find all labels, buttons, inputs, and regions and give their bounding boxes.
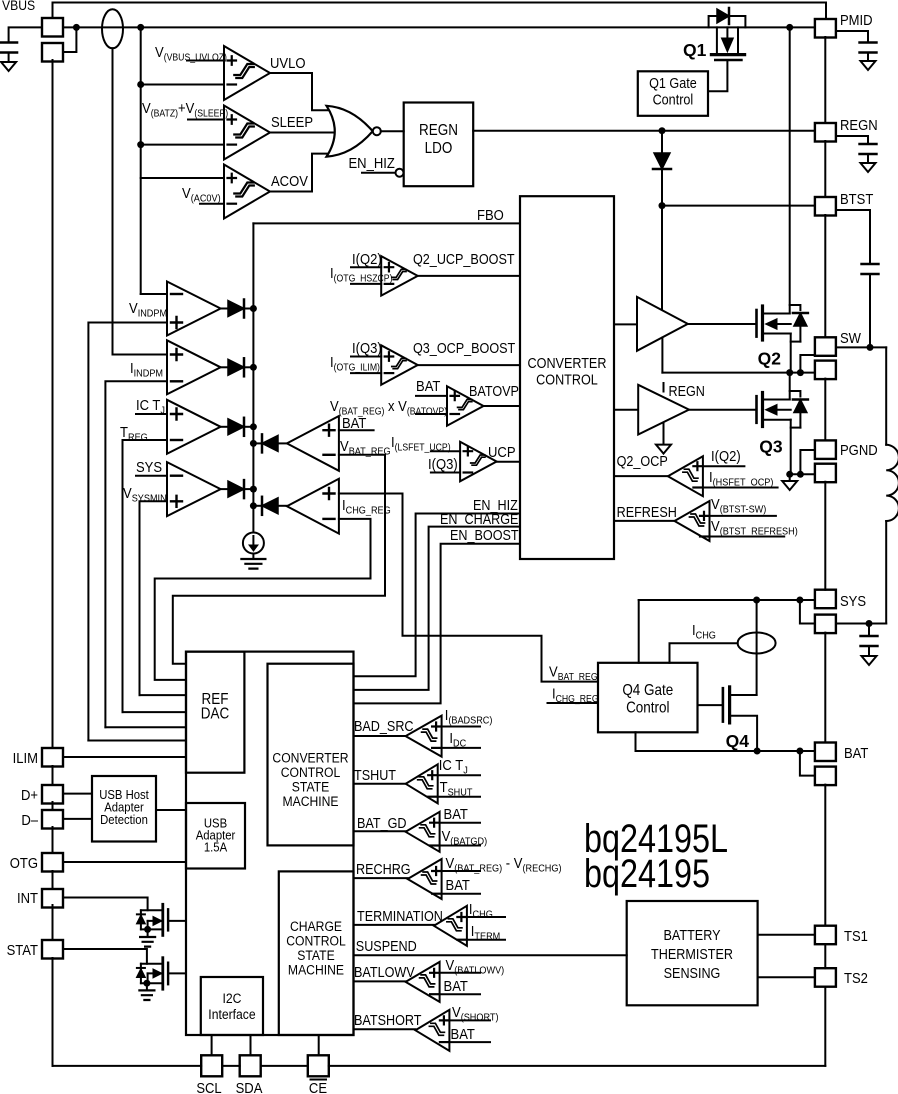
junction STAT fet source	[143, 980, 150, 987]
transistor Q1 drain stub	[737, 27, 739, 53]
svg-text:SUSPEND: SUSPEND	[356, 938, 417, 954]
svg-text:BAT: BAT	[444, 977, 469, 994]
wire chain TS1-TS2	[824, 945, 826, 969]
wire TSHUT output	[354, 783, 406, 785]
wire BAT stub	[339, 429, 374, 431]
wire chain SW-PGND	[824, 379, 826, 441]
wire BAT_GD plus stub	[440, 822, 480, 824]
svg-text:I(Q3): I(Q3)	[352, 339, 382, 356]
wire FBO to converter control	[253, 222, 520, 224]
wire OTG to logic block	[63, 861, 186, 863]
wire PMID to cap	[836, 31, 868, 43]
pin TS1	[815, 926, 836, 945]
pin CE	[308, 1055, 329, 1076]
wire chain PGND-SYS	[824, 482, 826, 590]
svg-text:Control: Control	[626, 700, 669, 717]
wire USB host detection to logic	[156, 809, 186, 811]
wire SW upper pin stub	[800, 355, 815, 373]
wire EN_CHARGE to state machine	[354, 527, 521, 690]
svg-text:Interface: Interface	[208, 1006, 255, 1022]
svg-text:REGN: REGN	[669, 383, 705, 399]
gate NOR 3-input	[327, 106, 373, 157]
svg-text:bq24195: bq24195	[584, 851, 710, 896]
wire BATLOWV minus stub	[440, 993, 480, 995]
svg-text:BATLOWV: BATLOWV	[354, 964, 415, 980]
svg-text:CONVERTER: CONVERTER	[528, 355, 607, 371]
svg-text:BATTERY: BATTERY	[664, 927, 721, 943]
block logic container	[186, 652, 354, 1035]
wire UCP minus stub	[431, 472, 460, 474]
wire REGN LDO output to REGN pin	[473, 130, 815, 132]
wire chain PMID-REGN	[824, 37, 826, 123]
wire TS1	[758, 934, 815, 936]
wire Q2_OCP minus stub	[703, 487, 778, 489]
wire PMID to Q2 drain	[789, 27, 791, 313]
wire I_CHG sense to Q4 gate control	[670, 643, 738, 663]
svg-text:UVLO: UVLO	[270, 54, 306, 71]
wire REGN to bootstrap diode	[661, 131, 663, 152]
ground INT fet	[140, 937, 155, 947]
svg-text:EN_HIZ: EN_HIZ	[348, 154, 395, 171]
transistor Q1 source stub	[716, 27, 718, 53]
pin D+	[42, 785, 63, 804]
wire VBUS to input capacitor	[9, 27, 42, 42]
diode I_INDPM or-ing	[221, 366, 228, 368]
transistor Q4 source stub	[730, 716, 758, 751]
svg-text:BATSHORT: BATSHORT	[354, 1012, 421, 1028]
wire PMID cap to ground	[867, 53, 869, 62]
transistor open-drain channel bar	[161, 958, 164, 990]
comparator Q3_OCP_BOOST	[381, 345, 418, 385]
current sense ellipse on VBUS	[102, 9, 123, 48]
wire BATOVP plus stub	[416, 395, 447, 397]
wire I_CHG_REG from REF DAC route	[155, 519, 371, 680]
wire VBUS main rail to PMID	[63, 26, 815, 28]
ground SYS cap	[862, 656, 877, 665]
wire chain BTST-SW	[824, 215, 826, 337]
junction bus charge loop	[250, 502, 257, 509]
svg-text:I(Q3): I(Q3)	[428, 455, 458, 472]
svg-text:BAT: BAT	[445, 876, 470, 893]
block REF DAC	[186, 652, 244, 773]
transistor Q3 drain stub	[763, 399, 790, 401]
wire Q2 source to SW	[790, 334, 792, 373]
svg-text:BAT_GD: BAT_GD	[357, 815, 407, 831]
svg-text:ACOV: ACOV	[271, 172, 309, 189]
diode open-drain body zener	[140, 910, 142, 929]
wire D+ to USB host detection	[63, 793, 92, 795]
pin STAT	[42, 940, 63, 959]
wire TS2	[758, 976, 815, 978]
wire Q2 driver output to gate	[688, 323, 756, 325]
svg-text:REGN: REGN	[840, 116, 878, 133]
svg-text:BAT: BAT	[416, 377, 441, 394]
wire I_CHG_REG stub to Q4	[548, 702, 599, 704]
ground current source	[241, 559, 265, 569]
wire Q2 driver bottom to SW	[661, 338, 663, 373]
junction bus SYS	[250, 486, 257, 493]
comparator TERMINATION	[434, 906, 467, 946]
wire ILIM to logic block	[63, 756, 186, 758]
current source bias	[252, 532, 254, 534]
comparator RECHRG	[408, 859, 442, 899]
pin OTG	[42, 853, 63, 872]
wire chain TS2 to bottom rail	[824, 987, 826, 1066]
wire BTST supply to Q2 gate driver	[661, 206, 663, 311]
wire UVLO output to NOR gate	[270, 73, 331, 110]
pin VBUS square 1	[42, 18, 63, 37]
diode charge loop to bus	[277, 505, 287, 507]
amplifier charge current loop I_CHG_REG	[287, 479, 339, 534]
transistor Q4 drain stub	[730, 694, 757, 696]
wire Q2_OCP plus stub	[703, 465, 745, 467]
comparator ACOV	[224, 165, 270, 219]
wire Q2_OCP output to converter	[614, 475, 668, 477]
svg-text:REGN: REGN	[419, 122, 458, 139]
wire STAT fet source to ground	[146, 983, 148, 990]
wire NOR output to REGN LDO	[381, 130, 404, 132]
transistor Q2 channel bar	[761, 306, 764, 340]
inductor L	[885, 347, 887, 444]
ground STAT fet	[139, 990, 154, 1000]
wire BAT lower pin stub	[800, 751, 815, 776]
wire I_INDPM minus into REF DAC	[105, 726, 186, 728]
diode Q2 body	[794, 313, 807, 326]
pin D-	[42, 810, 63, 829]
block CONVERTER CONTROL	[520, 196, 614, 559]
wire V_SYSMIN from REF DAC	[140, 501, 168, 695]
transistor Q1 bulk arrow	[722, 36, 733, 38]
block I2C Interface	[201, 977, 263, 1035]
capacitor SYS output	[861, 636, 878, 646]
junction PMID branch	[786, 24, 793, 31]
wire EN_HIZ input stub	[362, 172, 395, 174]
svg-text:FBO: FBO	[477, 206, 504, 223]
wire EN_HIZ to state machine	[354, 514, 521, 677]
junction bus V_INDPM	[250, 305, 257, 312]
junction PGND q3 source	[786, 471, 793, 478]
svg-text:Detection: Detection	[100, 812, 148, 827]
wire converter to Q2 driver	[614, 323, 637, 325]
svg-text:THERMISTER: THERMISTER	[651, 946, 733, 962]
wire V_INDPM minus input	[141, 293, 167, 295]
transistor open-drain drain stub	[141, 909, 163, 911]
transistor Q3 source stub	[763, 419, 791, 421]
wire BATOVP minus stub	[416, 413, 447, 415]
transistor open-drain source stub	[141, 928, 163, 930]
pin SW upper	[815, 337, 836, 356]
block CONVERTER CONTROL STATE MACHINE	[268, 664, 354, 846]
wire REFRESH minus stub	[710, 536, 785, 538]
block Q4 Gate Control	[598, 663, 698, 733]
diode thermal or-ing	[221, 426, 228, 428]
wire open-drain gate to logic	[168, 972, 186, 974]
wire top border from VBUS to PMID	[53, 3, 827, 19]
junction PGND body diode	[797, 471, 804, 478]
wire ACOV output to NOR gate	[270, 154, 331, 192]
diode battery loop to bus	[277, 442, 287, 444]
junction BTST rail	[659, 202, 666, 209]
comparator Q2_UCP_BOOST	[381, 256, 418, 296]
svg-text:BAT: BAT	[342, 414, 367, 431]
comparator Q2_OCP	[668, 456, 703, 496]
junction bus I_INDPM	[250, 364, 257, 371]
svg-text:CE: CE	[309, 1079, 327, 1094]
wire BATLOWV plus stub	[440, 972, 480, 974]
comparator BAD_SRC	[406, 716, 442, 757]
amplifier Q2 gate driver	[637, 297, 688, 351]
wire SYS node row	[639, 599, 815, 601]
wire BAD_SRC output	[354, 735, 406, 737]
bubble EN_HIZ inverter	[396, 169, 404, 177]
diode SYS or-ing	[221, 488, 228, 490]
wire bootstrap diode to BTST rail	[661, 170, 663, 206]
wire BAT_GD minus stub	[440, 845, 480, 847]
transistor open-drain drain stub	[141, 963, 163, 965]
wire SYS stub	[136, 475, 167, 477]
current sense ellipse I_CHG	[756, 600, 758, 695]
svg-text:Q1 Gate: Q1 Gate	[649, 75, 697, 91]
comparator REFRESH	[675, 501, 710, 541]
block CHARGE CONTROL STATE MACHINE	[279, 871, 354, 1035]
wire inductor to SYS	[836, 623, 886, 625]
transistor Q3 gate bar	[755, 396, 758, 423]
wire I_CHG sense to charge amp plus	[339, 494, 598, 682]
svg-text:Q4: Q4	[726, 731, 750, 751]
ground Q3 source	[782, 481, 797, 490]
pin SCL	[201, 1055, 222, 1076]
block Q1 Gate Control	[638, 71, 708, 116]
comparator BAT_GD	[406, 812, 440, 852]
pin BTST	[815, 197, 836, 216]
svg-text:PMID: PMID	[840, 11, 873, 28]
transistor open-drain gate bar	[167, 963, 169, 985]
wire TERMINATION minus stub	[467, 939, 505, 941]
svg-text:SCL: SCL	[196, 1079, 222, 1094]
wire Q4 gate	[698, 704, 723, 706]
pin VBUS square 2	[42, 43, 63, 62]
wire RECHRG minus stub	[442, 893, 480, 895]
wire SDA stub	[250, 1035, 252, 1055]
svg-text:I2C: I2C	[223, 990, 242, 1006]
wire V_INDPM plus into REF DAC	[88, 740, 186, 742]
svg-text:INT: INT	[17, 889, 38, 906]
wire chain REGN-BTST	[824, 141, 826, 197]
junction SLEEP minus	[137, 141, 144, 148]
wire REGN to cap	[836, 136, 868, 144]
junction SW body diode	[797, 369, 804, 376]
transistor Q4 channel bar	[728, 687, 731, 723]
wire Q1 gate to gate control	[708, 62, 727, 91]
wire BAD_SRC plus stub	[442, 726, 480, 728]
wire PGND upper pin stub	[800, 450, 815, 474]
wire INT to open-drain FET	[63, 898, 148, 911]
wire SUSPEND to battery thermister sensing	[354, 954, 627, 956]
amplifier SYS/V_SYSMIN	[167, 462, 221, 516]
transistor Q2 drain stub	[763, 313, 790, 315]
svg-text:SDA: SDA	[236, 1079, 263, 1094]
junction BAT q4 source	[754, 748, 761, 755]
svg-text:MACHINE: MACHINE	[288, 962, 344, 978]
wire or-bus vertical to FBO	[252, 223, 254, 532]
pin PGND upper	[815, 440, 836, 459]
wire VBUS sense ellipse to I_INDPM input	[113, 48, 168, 354]
svg-text:Q4 Gate: Q4 Gate	[622, 682, 673, 699]
svg-text:Q2: Q2	[758, 349, 782, 369]
junction BAT pin stub	[796, 748, 803, 755]
diode Q3 body	[794, 400, 807, 413]
svg-text:Q1: Q1	[683, 40, 707, 60]
svg-text:STAT: STAT	[7, 941, 39, 958]
comparator BATOVP	[447, 386, 484, 426]
pin SDA	[240, 1055, 261, 1076]
svg-text:BTST: BTST	[840, 190, 874, 207]
wire REGN cap to ground	[867, 154, 869, 163]
wire SLEEP plus input stub	[188, 119, 224, 121]
svg-text:TS2: TS2	[844, 969, 868, 986]
wire EN_BOOST to state machine	[354, 544, 521, 704]
svg-text:UCP: UCP	[488, 443, 516, 460]
wire SCL stub	[211, 1035, 213, 1055]
wire UVLO plus input stub	[187, 60, 224, 62]
svg-text:REFRESH: REFRESH	[617, 504, 677, 520]
block BATTERY THERMISTER SENSING	[627, 901, 758, 1005]
svg-text:I(Q2): I(Q2)	[352, 250, 382, 267]
wire SW to inductor	[836, 346, 886, 348]
svg-text:SENSING: SENSING	[664, 965, 721, 981]
svg-text:Q3_OCP_BOOST: Q3_OCP_BOOST	[413, 340, 515, 356]
wire TSHUT minus stub	[438, 796, 480, 798]
wire INT fet source to ground	[147, 929, 149, 937]
comparator BATLOWV	[406, 962, 440, 1002]
wire Q3 body diode jog	[790, 391, 801, 397]
wire Q2 body diode jog	[790, 305, 801, 310]
wire SLEEP minus input	[141, 144, 224, 146]
svg-text:EN_BOOST: EN_BOOST	[450, 527, 519, 543]
svg-text:TS1: TS1	[844, 927, 868, 944]
ground REGN cap	[861, 163, 876, 172]
wire Q3 source to PGND	[790, 420, 792, 475]
svg-text:OTG: OTG	[10, 854, 38, 871]
capacitor PMID	[860, 43, 877, 53]
pin PGND lower	[815, 464, 836, 483]
wire VBUS pin2 to main wire	[63, 27, 76, 52]
wire BATSHORT output	[354, 1028, 416, 1030]
junction bus thermal	[250, 423, 257, 430]
transistor Q3 channel bar	[761, 393, 764, 427]
svg-text:D–: D–	[21, 811, 38, 828]
pin BAT lower	[815, 767, 836, 786]
svg-text:1.5A: 1.5A	[204, 840, 228, 855]
capacitor VBUS input	[0, 43, 17, 53]
wire SW to Q3 drain	[789, 373, 791, 400]
junction VBUS pin2	[73, 24, 80, 31]
wire RECHRG plus stub	[442, 870, 480, 872]
wire TERMINATION plus stub	[467, 916, 505, 918]
wire SW node row	[662, 372, 815, 374]
wire BAT_GD output	[354, 830, 406, 832]
svg-text:Q2_OCP: Q2_OCP	[617, 453, 668, 469]
svg-text:PGND: PGND	[840, 441, 878, 458]
svg-text:TERMINATION: TERMINATION	[357, 908, 443, 924]
transistor open-drain gate bar	[167, 909, 169, 930]
block USB Adapter 1.5A	[186, 803, 245, 869]
diode open-drain body zener	[140, 964, 142, 984]
wire BTST rail to BTST pin	[662, 205, 815, 207]
ground VBUS input cap	[1, 62, 16, 71]
wire IC TJ stub	[136, 413, 167, 415]
wire REFRESH output to converter	[614, 520, 675, 522]
junction REGN to bootstrap diode	[659, 127, 666, 134]
junction bus battery loop	[250, 440, 257, 447]
wire RECHRG output	[354, 877, 408, 879]
transistor Q2 source stub	[763, 333, 791, 335]
wire open-drain gate to logic	[168, 920, 186, 922]
amplifier I_INDPM	[167, 340, 221, 394]
wire BATLOWV output	[354, 980, 406, 982]
svg-text:D+: D+	[21, 786, 38, 803]
comparator UVLO	[224, 46, 270, 100]
junction main wire to comparator chain	[137, 24, 144, 31]
svg-text:SYS: SYS	[840, 592, 866, 609]
wire Q4 gate control feedback to BAT	[636, 732, 815, 751]
svg-text:BAT: BAT	[451, 1025, 476, 1042]
svg-text:VBUS: VBUS	[2, 0, 35, 13]
wire left pin chain vertical	[52, 60, 54, 748]
wire Q3 driver output to gate	[689, 409, 756, 411]
wire SYS cap stub	[868, 624, 870, 637]
wire converter to Q3 driver	[614, 409, 638, 411]
diode Q1 body loop	[709, 16, 746, 27]
svg-text:SW: SW	[840, 329, 862, 346]
svg-text:I(Q2): I(Q2)	[711, 447, 741, 464]
diode bootstrap REGN-BTST	[654, 153, 670, 169]
wire UVLO minus input	[141, 84, 224, 86]
block REGN LDO	[404, 103, 474, 187]
wire SLEEP output to NOR gate	[270, 132, 340, 134]
svg-text:ILIM: ILIM	[13, 749, 38, 766]
wire ACOV plus input	[141, 177, 224, 179]
transistor Q4 gate bar	[722, 688, 725, 721]
pin BAT upper	[815, 743, 836, 762]
svg-text:Control: Control	[653, 92, 694, 108]
wire BATOVP output	[484, 405, 521, 407]
transistor open-drain channel bar	[161, 904, 164, 935]
comparator UCP	[460, 442, 497, 482]
comparator TSHUT	[406, 764, 438, 803]
junction bootstrap cap SW	[867, 344, 874, 351]
wire I_INDPM minus from REF DAC	[105, 381, 167, 727]
wire D- to USB host detection	[63, 818, 92, 820]
wire Q3 source ground stub	[789, 474, 791, 481]
svg-text:MACHINE: MACHINE	[282, 793, 338, 809]
junction SYS ellipse branch	[753, 597, 760, 604]
transistor open-drain source stub	[141, 982, 163, 984]
wire bootstrap cap to SW	[869, 274, 871, 347]
svg-text:RECHRG: RECHRG	[356, 861, 411, 877]
wire BTST to bootstrap cap	[836, 210, 870, 264]
junction INT fet source	[144, 926, 151, 933]
wire V_BAT_REG from REF DAC route	[173, 455, 385, 664]
svg-text:SYS: SYS	[136, 458, 162, 475]
svg-text:TSHUT: TSHUT	[354, 767, 396, 783]
svg-text:LDO: LDO	[425, 140, 453, 157]
pin INT	[42, 889, 63, 908]
junction SYS output cap	[866, 620, 873, 627]
amplifier V_INDPM	[167, 282, 221, 336]
wire REGN supply tick	[663, 383, 665, 392]
wire CE stub	[318, 1035, 320, 1055]
